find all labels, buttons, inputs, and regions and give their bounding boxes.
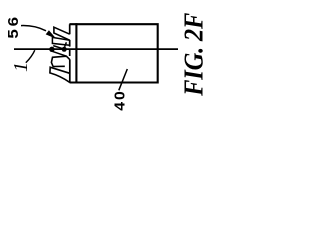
- svg-text:1: 1: [10, 62, 32, 72]
- tooth 2: [52, 37, 69, 45]
- tooth 3 tick from node: [52, 51, 66, 56]
- leader 1: [26, 50, 35, 63]
- node dot right: [62, 47, 67, 52]
- serration base line segments: [69, 24, 71, 82]
- tooth 4: [50, 67, 70, 82]
- tooth 1: [54, 27, 70, 40]
- svg-text:56: 56: [6, 14, 22, 38]
- tooth 3: [51, 56, 69, 66]
- leader 40: [119, 69, 128, 90]
- svg-text:FIG. 2F: FIG. 2F: [178, 13, 209, 97]
- svg-text:40: 40: [112, 89, 128, 110]
- tooth 2 lower edge to node: [53, 46, 64, 50]
- body 40 rectangle: [69, 24, 157, 82]
- body 40 left edge: [75, 23, 77, 82]
- centerline (axis of device 1): [14, 48, 178, 50]
- node dot left: [49, 47, 54, 52]
- tooth 2 upper stub: [65, 42, 67, 47]
- leader arrow 56 shaft: [21, 26, 46, 31]
- leader arrow 56 head: [46, 30, 57, 39]
